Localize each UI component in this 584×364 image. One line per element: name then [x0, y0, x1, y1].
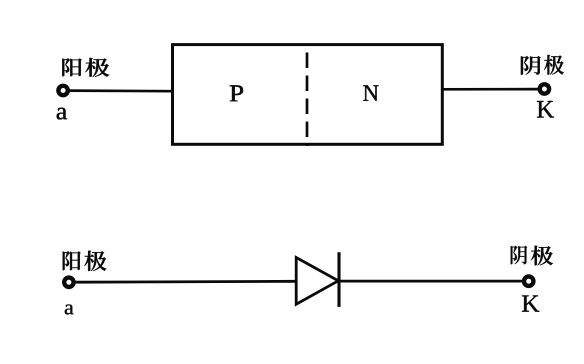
wire cathode lead (top figure) [441, 88, 540, 91]
pin label K (top figure) [537, 101, 554, 117]
node label 阴极 (cathode name, bottom figure) [511, 246, 553, 266]
anode terminal a (top figure) [58, 86, 67, 95]
node label 阳极 (anode name, top figure) [62, 58, 109, 77]
cathode terminal K (top figure) [540, 84, 549, 93]
anode terminal a (bottom figure) [64, 278, 73, 287]
P region label [230, 85, 243, 101]
wire anode side (bottom figure) [73, 280, 296, 284]
pin label a (bottom figure) [65, 305, 74, 315]
wire cathode side (bottom figure) [339, 280, 524, 283]
wire anode lead (top figure) [67, 89, 174, 92]
node label 阴极 (cathode name, top figure) [521, 55, 564, 75]
cathode terminal K (bottom figure) [524, 277, 533, 286]
PN junction body rectangle [173, 45, 443, 145]
pin label a (top figure) [57, 108, 67, 120]
N region label [363, 85, 378, 100]
node label 阳极 (anode name, bottom figure) [63, 251, 107, 271]
pin label K (bottom figure) [522, 295, 539, 311]
diode VD cathode bar [337, 252, 340, 307]
junction boundary dashed line [306, 47, 309, 147]
diode VD anode triangle [296, 258, 338, 305]
